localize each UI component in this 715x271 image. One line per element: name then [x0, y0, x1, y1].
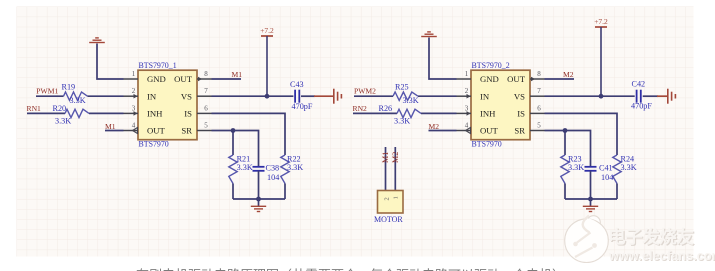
svg-text:8: 8 [204, 70, 208, 78]
svg-text:3: 3 [465, 104, 469, 112]
svg-text:OUT: OUT [507, 74, 526, 84]
svg-text:5: 5 [537, 122, 541, 130]
svg-text:有刷电机驱动电路原理图（共需要两个，每个驱动电路可以驱动一个: 有刷电机驱动电路原理图（共需要两个，每个驱动电路可以驱动一个电机） [136, 268, 565, 271]
svg-text:电子发烧友: 电子发烧友 [608, 227, 694, 247]
svg-text:BTS7970_1: BTS7970_1 [139, 61, 177, 70]
svg-text:470pF: 470pF [631, 102, 652, 111]
svg-text:RN2: RN2 [353, 104, 368, 113]
svg-text:BTS7970_2: BTS7970_2 [472, 61, 510, 70]
svg-text:C43: C43 [290, 80, 304, 89]
svg-text:www.elecfans.com: www.elecfans.com [608, 248, 715, 263]
svg-text:3.3K: 3.3K [394, 117, 410, 126]
svg-text:M2: M2 [563, 70, 574, 79]
svg-text:RN1: RN1 [27, 104, 42, 113]
svg-text:3.3K: 3.3K [621, 163, 637, 172]
svg-text:R25: R25 [395, 83, 409, 92]
svg-text:OUT: OUT [174, 74, 193, 84]
svg-text:VS: VS [514, 91, 525, 101]
svg-text:3.3K: 3.3K [237, 163, 253, 172]
svg-text:3: 3 [132, 104, 136, 112]
svg-text:8: 8 [537, 70, 541, 78]
svg-text:6: 6 [204, 104, 208, 112]
svg-text:BTS7970: BTS7970 [472, 139, 502, 148]
svg-text:+7.2: +7.2 [260, 26, 274, 35]
svg-text:104: 104 [601, 173, 613, 182]
svg-text:GND: GND [480, 74, 499, 84]
svg-text:M2: M2 [391, 152, 400, 163]
svg-text:INH: INH [480, 109, 496, 119]
svg-text:7: 7 [537, 87, 541, 95]
svg-text:OUT: OUT [480, 126, 499, 136]
svg-text:R26: R26 [379, 104, 393, 113]
svg-text:IS: IS [517, 109, 525, 119]
svg-text:1: 1 [465, 70, 469, 78]
svg-text:3.3K: 3.3K [70, 96, 86, 105]
svg-text:SR: SR [181, 126, 192, 136]
svg-text:BTS7970: BTS7970 [139, 139, 169, 148]
svg-text:IS: IS [184, 109, 192, 119]
svg-text:PWM1: PWM1 [36, 87, 58, 96]
svg-text:6: 6 [537, 104, 541, 112]
svg-text:C38: C38 [266, 164, 280, 173]
svg-text:OUT: OUT [147, 126, 166, 136]
svg-text:R20: R20 [53, 104, 67, 113]
svg-text:M2: M2 [429, 122, 440, 131]
svg-text:MOTOR: MOTOR [374, 215, 403, 224]
svg-text:M1: M1 [232, 70, 243, 79]
svg-text:2: 2 [132, 87, 136, 95]
svg-text:2: 2 [384, 197, 391, 200]
svg-text:3.3K: 3.3K [287, 163, 303, 172]
svg-text:1: 1 [132, 70, 136, 78]
svg-text:GND: GND [147, 74, 166, 84]
svg-text:C41: C41 [599, 164, 613, 173]
svg-text:C42: C42 [632, 80, 646, 89]
svg-text:3.3K: 3.3K [403, 96, 419, 105]
svg-text:3.3K: 3.3K [55, 117, 71, 126]
svg-text:PWM2: PWM2 [354, 87, 376, 96]
svg-text:VS: VS [181, 91, 192, 101]
svg-text:7: 7 [204, 87, 208, 95]
svg-text:2: 2 [465, 87, 469, 95]
svg-text:IN: IN [147, 91, 157, 101]
svg-text:+7.2: +7.2 [594, 17, 608, 26]
svg-text:INH: INH [147, 109, 163, 119]
svg-text:M1: M1 [105, 122, 116, 131]
svg-text:470pF: 470pF [292, 102, 313, 111]
svg-text:5: 5 [204, 122, 208, 130]
svg-text:104: 104 [267, 173, 279, 182]
svg-text:3.3K: 3.3K [568, 163, 584, 172]
svg-text:SR: SR [514, 126, 525, 136]
svg-text:IN: IN [480, 91, 490, 101]
svg-text:M1: M1 [381, 152, 390, 163]
svg-text:1: 1 [393, 196, 400, 199]
svg-text:R19: R19 [62, 83, 76, 92]
